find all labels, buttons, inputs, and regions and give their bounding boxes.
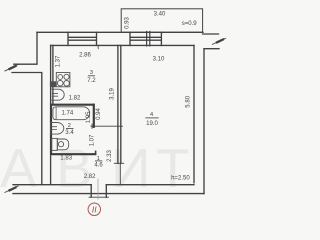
svg-text:2: 2 — [68, 123, 71, 129]
svg-text:4: 4 — [150, 112, 154, 118]
svg-text:3.10: 3.10 — [153, 57, 165, 63]
svg-text:1.83: 1.83 — [60, 155, 72, 161]
svg-text:0.94: 0.94 — [96, 107, 102, 119]
svg-text:h=2.50: h=2.50 — [171, 176, 190, 182]
svg-text:1.37: 1.37 — [55, 55, 61, 67]
svg-text:7.2: 7.2 — [87, 78, 96, 84]
svg-text:3.40: 3.40 — [154, 11, 166, 17]
svg-text:3.4: 3.4 — [65, 130, 74, 136]
svg-text:19.0: 19.0 — [146, 121, 158, 127]
svg-text:Т: Т — [156, 137, 190, 199]
svg-text:2.82: 2.82 — [84, 174, 96, 180]
svg-text:И: И — [111, 137, 151, 199]
svg-text:1.82: 1.82 — [69, 95, 81, 101]
svg-text:5.80: 5.80 — [185, 95, 191, 107]
svg-text:1: 1 — [97, 156, 100, 162]
svg-text:1.95: 1.95 — [86, 111, 92, 123]
svg-text:3.19: 3.19 — [109, 87, 115, 99]
svg-text:s=0.9: s=0.9 — [182, 21, 198, 27]
svg-text:3: 3 — [90, 70, 94, 76]
svg-text:II: II — [92, 204, 97, 214]
svg-text:1.07: 1.07 — [89, 134, 95, 146]
svg-text:А: А — [0, 137, 37, 199]
svg-text:2.86: 2.86 — [79, 52, 91, 58]
svg-text:4.6: 4.6 — [94, 162, 103, 168]
svg-text:1.74: 1.74 — [62, 111, 74, 117]
svg-text:2.33: 2.33 — [107, 149, 113, 161]
svg-text:0.93: 0.93 — [125, 16, 131, 28]
